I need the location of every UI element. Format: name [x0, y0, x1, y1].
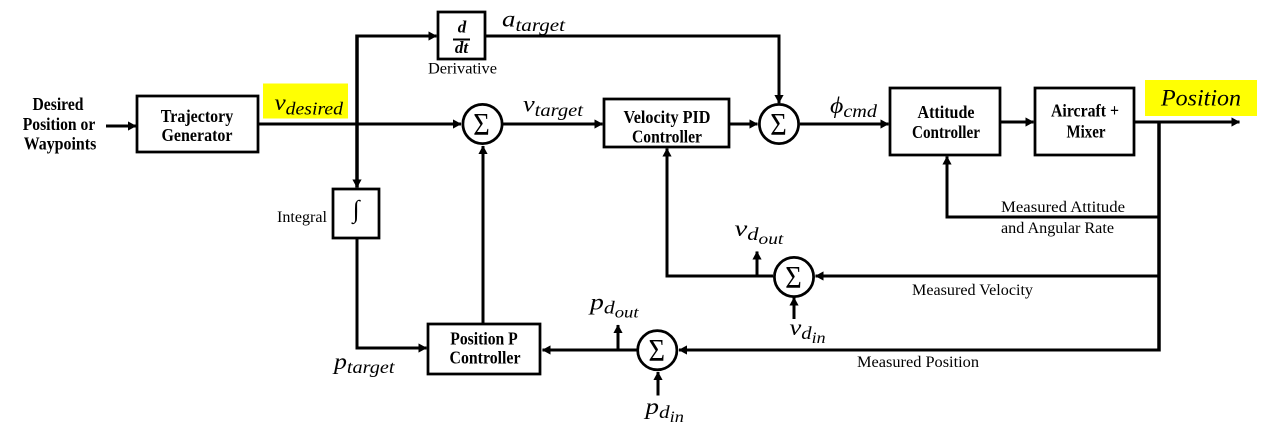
- svg-text:Σ: Σ: [785, 259, 802, 295]
- svg-text:d: d: [458, 18, 467, 37]
- svg-text:Velocity PID: Velocity PID: [624, 107, 711, 127]
- svg-text:Trajectory: Trajectory: [161, 106, 234, 126]
- svg-text:Aircraft +: Aircraft +: [1051, 101, 1119, 121]
- svg-text:Measured Velocity: Measured Velocity: [912, 282, 1033, 299]
- svg-text:Controller: Controller: [450, 348, 521, 368]
- svg-text:Position: Position: [1160, 86, 1241, 111]
- svg-text:Σ: Σ: [770, 106, 787, 142]
- svg-text:Position or: Position or: [23, 114, 96, 134]
- svg-text:Controller: Controller: [912, 122, 980, 142]
- svg-text:Generator: Generator: [162, 125, 233, 145]
- svg-text:∫: ∫: [351, 197, 361, 225]
- svg-text:Derivative: Derivative: [428, 61, 497, 78]
- svg-text:and Angular Rate: and Angular Rate: [1001, 220, 1114, 237]
- svg-text:Integral: Integral: [277, 209, 328, 226]
- svg-text:Attitude: Attitude: [918, 102, 975, 122]
- svg-text:dt: dt: [455, 38, 470, 57]
- svg-text:Σ: Σ: [473, 106, 490, 142]
- svg-text:Measured Position: Measured Position: [857, 354, 979, 371]
- svg-text:Waypoints: Waypoints: [24, 133, 97, 153]
- svg-text:Controller: Controller: [632, 127, 702, 147]
- svg-text:Measured Attitude: Measured Attitude: [1001, 199, 1125, 216]
- svg-text:Position P: Position P: [450, 328, 518, 348]
- svg-text:Desired: Desired: [33, 94, 84, 114]
- svg-text:Mixer: Mixer: [1067, 121, 1106, 141]
- svg-text:Σ: Σ: [649, 332, 666, 368]
